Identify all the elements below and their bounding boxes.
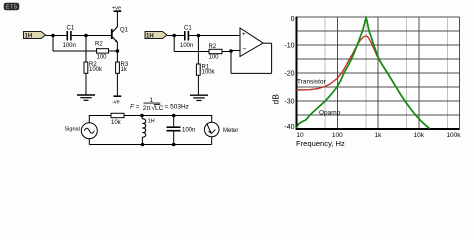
svg-text:C1: C1 [67, 26, 75, 32]
svg-text:100: 100 [209, 54, 220, 60]
chart decade vertical gridlines [337, 17, 459, 129]
svg-text:100n: 100n [182, 128, 195, 134]
wire source bottom [88, 139, 90, 145]
svg-text:Signal: Signal [65, 126, 80, 132]
feedback wire bottom [231, 72, 272, 74]
svg-text:100n: 100n [180, 43, 193, 49]
wire emitter down to node E1 [116, 43, 118, 52]
svg-text:1k: 1k [375, 132, 383, 139]
svg-text:-40: -40 [284, 124, 294, 131]
wire bottom bus [89, 144, 211, 146]
resistor R2 100k (circuit 1, vertical) [84, 62, 103, 73]
node B2 junction dot [197, 34, 201, 38]
wire node A2 down [173, 36, 175, 52]
chart minor vertical gridlines (50,500,5k,50k) [325, 17, 447, 129]
svg-text:-10: -10 [284, 43, 294, 50]
logo badge [4, 3, 19, 11]
terminal tag 1H (circuit 2) [145, 32, 167, 40]
node L bottom junction dot [141, 143, 145, 147]
wire tag to node A2 [167, 35, 174, 37]
feedback wire left vertical to node F [230, 51, 232, 74]
svg-text:+: + [242, 31, 246, 38]
chart plot background [297, 17, 460, 129]
svg-text:R2: R2 [209, 44, 217, 50]
wire node B1 down to R2 100k [85, 37, 87, 62]
capacitor 100n (bottom) [167, 116, 196, 145]
node C bottom junction dot [172, 143, 176, 147]
svg-text:Meter: Meter [223, 128, 238, 134]
svg-text:10k: 10k [111, 120, 122, 126]
terminal tag 1H (circuit 1) [24, 32, 46, 40]
svg-text:+ve: +ve [112, 5, 121, 11]
capacitor C1 (circuit 2) [180, 26, 193, 50]
svg-text:Opamp: Opamp [319, 110, 341, 117]
wire tag to node A1 [46, 35, 54, 37]
wire collector up [116, 12, 118, 27]
wire node L to node C top [142, 115, 174, 117]
wire node F to opamp - input [231, 50, 240, 52]
svg-text:F =: F = [130, 104, 140, 111]
wire R3 to -ve [116, 73, 118, 95]
node F junction dot [229, 49, 233, 53]
svg-text:R2: R2 [95, 42, 103, 48]
svg-text:-ve: -ve [112, 99, 120, 105]
svg-text:C1: C1 [184, 26, 192, 32]
svg-text:100k: 100k [202, 69, 216, 75]
feedback wire right vertical [271, 43, 273, 73]
svg-text:1H: 1H [146, 33, 154, 39]
wire C1 right plate to node B1 [72, 35, 86, 37]
wire source top [89, 116, 111, 123]
op-amp U1 [240, 28, 263, 57]
svg-text:ETS: ETS [6, 5, 18, 11]
wire node B2 down to R1 [197, 37, 199, 64]
wire node A1 to C1 left plate [53, 35, 67, 37]
svg-text:-20: -20 [284, 71, 294, 78]
resistor 10k [111, 113, 124, 126]
resistor R3 1k [116, 62, 129, 73]
svg-text:Frequency, Hz: Frequency, Hz [296, 139, 345, 148]
chart x axis tick labels [296, 132, 461, 139]
wire opamp output [263, 42, 272, 44]
svg-text:100k: 100k [446, 132, 461, 139]
svg-text:10: 10 [296, 132, 304, 139]
svg-text:dB: dB [271, 94, 281, 105]
signal generator source [65, 123, 98, 139]
svg-text:1H: 1H [148, 118, 155, 124]
resistor R2 100 (circuit 2, horizontal) [209, 44, 223, 61]
svg-text:-30: -30 [284, 99, 294, 106]
wire node A1 down [52, 36, 54, 52]
svg-text:100k: 100k [89, 67, 103, 73]
svg-text:−: − [242, 45, 246, 52]
transistor Q1 [112, 27, 129, 43]
node L junction dot [140, 114, 144, 118]
resistor R1 100k [196, 64, 215, 75]
wire R2 to feedback node F [222, 51, 231, 53]
ground (circuit 2) [190, 95, 208, 100]
svg-text:1k: 1k [121, 67, 128, 73]
wire node E1 down to R3 [116, 51, 118, 62]
wire R1 to ground [197, 75, 199, 95]
svg-text:100n: 100n [63, 43, 76, 49]
svg-text:2π √LC: 2π √LC [143, 104, 164, 112]
chart axis left and bottom [296, 17, 460, 131]
wire node C top to meter [174, 116, 212, 123]
+ve supply symbol [112, 5, 121, 11]
svg-text:10k: 10k [414, 132, 425, 139]
wire bottom horizontal to R2 [53, 50, 97, 52]
wire node B1 to Q1 base [86, 35, 111, 37]
wire node B2 to opamp + input [198, 35, 240, 37]
capacitor C1 (circuit 1) [63, 26, 76, 50]
svg-text:1H: 1H [25, 33, 33, 39]
ground (circuit 1) [77, 95, 95, 100]
node A1 junction dot [51, 34, 55, 38]
node B1 junction dot [84, 34, 88, 38]
wire node A2 to C1 left plate [174, 35, 184, 37]
wire C1 right plate to node B2 [189, 35, 198, 37]
svg-text:Transistor: Transistor [297, 79, 326, 86]
node A2 junction dot [172, 34, 176, 38]
resistor R2 100 (circuit 1, horizontal) [95, 42, 109, 61]
chart horizontal gridlines every 5 dB [297, 17, 460, 115]
inductor L1 1H [142, 116, 155, 145]
wire meter bottom [211, 137, 213, 145]
svg-text:= 503Hz: = 503Hz [165, 104, 189, 111]
svg-text:100: 100 [97, 55, 108, 61]
wire bottom horizontal to R2 [174, 51, 209, 53]
formula F = 1/(2 pi sqrt LC) = 503Hz [130, 97, 189, 112]
wire R2 100k to ground [85, 73, 87, 94]
svg-text:Q1: Q1 [120, 27, 129, 33]
-ve supply symbol [112, 96, 121, 105]
node E1 junction dot [116, 49, 120, 53]
svg-text:0: 0 [291, 16, 295, 23]
wire R2 to emitter node E1 [109, 50, 118, 52]
meter [204, 122, 238, 137]
opamp response curve (green) [297, 18, 430, 129]
transistor response curve (red) [297, 36, 430, 129]
chart y axis tick labels [284, 16, 294, 131]
node C top junction dot [172, 114, 176, 118]
wire 10k to node L [124, 115, 142, 117]
svg-text:100: 100 [332, 132, 343, 139]
